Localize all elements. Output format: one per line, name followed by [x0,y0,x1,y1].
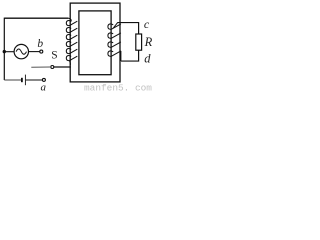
svg-text:d: d [144,52,151,66]
wire: junction to AC source [4,51,14,53]
svg-text:c: c [144,17,150,31]
wire: resistor bottom to secondary bottom lead [121,50,139,61]
svg-text:R: R [144,35,153,49]
svg-text:manfen5. com: manfen5. com [84,83,152,93]
transformer core: inner rectangle [79,11,111,75]
wire: secondary top lead to resistor [117,23,138,34]
svg-text:b: b [37,38,43,50]
wire: battery to terminal a [26,79,43,81]
svg-text:S: S [51,50,57,62]
transformer core: outer rectangle [70,3,120,82]
resistor R [136,34,142,50]
wire: secondary coil tail to bottom lead [120,51,122,61]
battery cell: long plate [24,75,26,86]
switch S: pivot (open circle) [51,66,54,69]
AC source [14,44,28,58]
switch S: lever [31,66,50,68]
terminal a (open circle) [42,78,45,81]
secondary coil L2 [108,23,121,57]
wire: AC source to terminal b [29,51,40,53]
node: junction of AC branch on left vertical [3,50,6,53]
terminal b (open circle) [40,50,43,53]
primary coil L1 [66,18,77,65]
wire: pivot to primary coil bottom [54,66,71,68]
battery cell: short plate [21,78,23,82]
svg-text:a: a [41,82,47,92]
wire: top run from left loop to primary coil [4,17,68,19]
wire: bottom run to battery [4,79,21,81]
wire: left vertical [3,18,5,80]
